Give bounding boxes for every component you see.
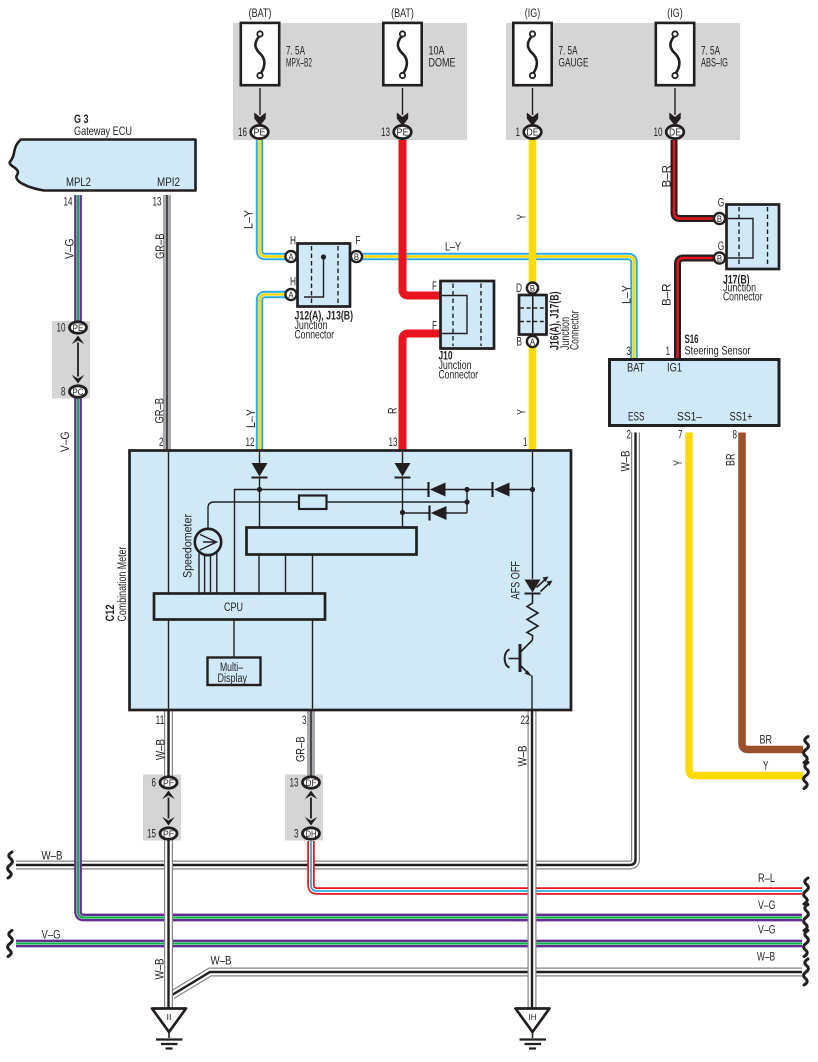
svg-text:3: 3 <box>294 829 299 841</box>
wire B-R from fuse ABS-IG pin 10 to junction connector J17 upper pin B <box>674 140 714 219</box>
svg-text:8: 8 <box>733 430 738 442</box>
svg-text:PE: PE <box>254 128 266 139</box>
svg-text:V–G: V–G <box>758 900 776 912</box>
svg-text:PF: PF <box>163 778 174 789</box>
diode D5 pointing left on row1 right <box>491 482 493 497</box>
svg-text:SS1+: SS1+ <box>730 412 753 424</box>
svg-text:MPI2: MPI2 <box>157 177 180 189</box>
wire GR-B from Gateway ECU MPI2 pin 13 to C12 pin 2 <box>163 195 171 451</box>
svg-text:Y: Y <box>763 761 769 773</box>
node DF-DH connector background <box>285 775 323 841</box>
fuse 7.5A ABS-IG with pin 10 DE <box>656 23 694 85</box>
wire L-Y from J12 pin B right and down to S16 BAT pin 3 <box>363 257 634 360</box>
svg-text:Connector: Connector <box>723 292 763 304</box>
svg-text:(BAT): (BAT) <box>391 8 414 20</box>
wire W-B bottom horizontal from right break joining ground wire <box>172 972 802 995</box>
svg-text:PE: PE <box>73 323 84 334</box>
svg-text:GR–B: GR–B <box>155 398 167 424</box>
svg-text:BR: BR <box>760 735 773 747</box>
wire break mark left V-G <box>8 931 13 957</box>
svg-text:B–R: B–R <box>662 165 674 188</box>
ECU C12 Combination Meter box <box>130 451 572 711</box>
svg-text:IH: IH <box>529 1012 537 1022</box>
wire break mark right W-B <box>804 959 809 985</box>
svg-text:3: 3 <box>627 346 632 358</box>
svg-text:7: 7 <box>678 430 683 442</box>
svg-text:F: F <box>356 236 361 248</box>
wire R from junction connector J10 lower pin F down to C12 pin 13 <box>403 334 442 451</box>
svg-text:W–B: W–B <box>211 956 232 968</box>
svg-text:22: 22 <box>521 715 530 727</box>
svg-text:B: B <box>530 284 535 294</box>
svg-text:H: H <box>290 236 296 248</box>
pin B lower of J17 <box>714 252 725 263</box>
wire Y from fuse GAUGE pin 1 through J16 to C12 pin 1 <box>529 140 537 451</box>
node Multi-Display box <box>208 658 261 686</box>
wire W-B from S16 ESS pin 2 down and left to break <box>16 433 636 866</box>
wire W-B from C12 pin 22 to ground IH <box>528 710 537 1008</box>
svg-text:B: B <box>717 214 722 224</box>
svg-text:W–B: W–B <box>757 952 775 964</box>
wire V-G lower segment from PC pin 8 down then right to break <box>78 398 802 918</box>
svg-text:L–Y: L–Y <box>246 409 258 428</box>
wire V-G from Gateway ECU MPL2 pin 14 upper segment <box>74 195 82 322</box>
svg-text:Gateway ECU: Gateway ECU <box>74 126 132 138</box>
wire stubs long rect to CPU <box>259 555 313 594</box>
wire Y from S16 SS1- pin 7 down then right to break <box>689 433 803 776</box>
wire internal C12 pin 2 to CPU <box>168 452 170 594</box>
svg-text:13: 13 <box>389 437 398 449</box>
svg-text:B: B <box>717 254 722 264</box>
svg-text:8: 8 <box>61 387 66 399</box>
node IG-fuse-block background <box>506 23 740 140</box>
svg-text:7. 5A: 7. 5A <box>559 46 578 58</box>
svg-text:DH: DH <box>306 829 317 840</box>
svg-text:2: 2 <box>159 437 164 449</box>
wire B-R from J17 lower pin B down to S16 IG1 pin 1 <box>678 258 715 360</box>
connector pair PF pin 6 to PF pin 15 <box>160 777 177 788</box>
svg-text:V–G: V–G <box>42 930 61 942</box>
svg-text:Y: Y <box>673 460 685 466</box>
IC CPU box in C12 <box>154 594 325 620</box>
node junction dot in J12 <box>321 254 326 259</box>
svg-text:(IG): (IG) <box>667 8 683 20</box>
svg-text:7. 5A: 7. 5A <box>701 46 720 58</box>
svg-text:7. 5A: 7. 5A <box>286 46 305 58</box>
svg-text:A: A <box>288 252 293 262</box>
svg-text:16: 16 <box>238 127 247 139</box>
svg-text:Steering Sensor: Steering Sensor <box>685 346 751 358</box>
ground II <box>152 1009 186 1033</box>
resistor in AFS OFF branch <box>527 594 538 640</box>
svg-text:PE: PE <box>397 128 409 139</box>
svg-text:CPU: CPU <box>224 602 243 614</box>
svg-text:14: 14 <box>64 197 73 209</box>
svg-text:G: G <box>718 241 725 253</box>
wire W-B from connector PF pin 15 to ground II <box>164 838 173 1008</box>
svg-text:1: 1 <box>523 437 528 449</box>
svg-text:L–Y: L–Y <box>244 210 256 229</box>
svg-text:W–B: W–B <box>518 745 530 766</box>
svg-text:DOME: DOME <box>429 58 456 70</box>
svg-text:1: 1 <box>516 127 521 139</box>
svg-text:13: 13 <box>153 197 162 209</box>
svg-text:L–Y: L–Y <box>622 285 634 304</box>
svg-text:C12: C12 <box>105 605 117 622</box>
svg-text:1: 1 <box>666 346 671 358</box>
wire V-G horizontal from left break to right break <box>16 940 802 948</box>
wire break mark right R-L <box>804 878 809 904</box>
resistor R1 in C12 <box>299 496 327 510</box>
svg-text:MPX–B2: MPX–B2 <box>286 58 312 70</box>
junction connector J16(A),J17(B) box <box>519 295 547 335</box>
wire GR-B from C12 pin 3 to connector DF pin 13 <box>307 710 315 778</box>
svg-text:13: 13 <box>290 778 299 790</box>
svg-text:2: 2 <box>627 430 632 442</box>
svg-text:IG1: IG1 <box>667 363 682 375</box>
pin A upper of J12 <box>285 251 296 262</box>
svg-text:6: 6 <box>152 778 157 790</box>
wire row1 horizontal with diodes <box>260 489 429 491</box>
svg-text:II: II <box>167 1012 172 1022</box>
svg-text:(BAT): (BAT) <box>249 8 272 20</box>
svg-text:W–B: W–B <box>42 851 63 863</box>
svg-text:15: 15 <box>147 829 156 841</box>
wire CPU down to C12 pin 3 <box>312 620 314 709</box>
svg-text:Connector: Connector <box>439 370 479 382</box>
svg-text:MPL2: MPL2 <box>66 177 91 189</box>
node junction dot on pin13 line row3 <box>400 510 405 515</box>
junction connector J12(A),J13(B) box <box>298 244 351 307</box>
svg-text:(IG): (IG) <box>525 8 541 20</box>
svg-text:B–R: B–R <box>662 284 674 307</box>
wire CPU to Multi-Display <box>233 620 235 658</box>
wire internal CPU to C12 pin 11 <box>168 620 170 709</box>
transistor Q1 in C12 <box>521 640 533 652</box>
svg-text:GAUGE: GAUGE <box>559 58 589 70</box>
ECU S16 Steering Sensor box <box>610 360 780 426</box>
svg-text:V–G: V–G <box>758 925 776 937</box>
svg-text:Display: Display <box>218 673 248 685</box>
wire L-Y from fuse MPX-B2 pin 16 to junction connector J12 pin A <box>260 140 287 257</box>
node display unit long rectangle <box>247 528 417 555</box>
svg-text:GR–B: GR–B <box>155 233 167 259</box>
node junction dot under D1 <box>257 487 262 492</box>
pin B upper of J17 <box>714 213 725 224</box>
svg-text:BR: BR <box>726 454 738 467</box>
pin B upper of J16 <box>527 282 538 293</box>
svg-text:B: B <box>354 252 359 262</box>
svg-text:PC: PC <box>73 387 84 398</box>
svg-text:Connector: Connector <box>295 330 335 342</box>
pin A lower of J16 <box>527 336 538 347</box>
svg-text:A: A <box>288 290 293 300</box>
wire L-Y from junction connector J12 lower pin A down to C12 pin 12 <box>260 295 287 451</box>
svg-text:F: F <box>432 321 437 333</box>
diode D4 pointing left on row3 <box>428 506 430 521</box>
svg-text:A: A <box>530 337 535 347</box>
svg-text:W–B: W–B <box>621 450 633 471</box>
connector pair PE pin 10 to PC pin 8 <box>70 322 87 333</box>
svg-text:Connector: Connector <box>570 310 582 350</box>
wire row2 horizontal to resistor <box>208 502 299 529</box>
ground IH <box>516 1009 550 1033</box>
svg-text:GR–B: GR–B <box>296 736 308 762</box>
wire row3 horizontal <box>403 512 430 514</box>
svg-text:13: 13 <box>381 127 390 139</box>
node junction dot row1 on pin1 line <box>530 487 535 492</box>
svg-text:F: F <box>432 281 437 293</box>
svg-text:G: G <box>718 198 725 210</box>
LED AFS OFF indicator <box>525 580 541 593</box>
wire R-L from DH pin 3 down then right to break <box>311 841 802 891</box>
svg-text:12: 12 <box>246 437 255 449</box>
wire internal pin1 vertical down to LED <box>532 452 534 579</box>
pin B of J12 <box>351 251 362 262</box>
svg-text:AFS OFF: AFS OFF <box>511 561 523 600</box>
svg-text:L–Y: L–Y <box>445 242 461 254</box>
pin A lower of J12 <box>285 289 296 300</box>
svg-text:10A: 10A <box>429 46 445 58</box>
svg-text:ABS–IG: ABS–IG <box>701 58 728 70</box>
wire break mark right Y <box>804 763 809 789</box>
wire break mark right BR <box>804 737 809 763</box>
svg-text:W–B: W–B <box>155 958 167 979</box>
diode D2 below C12 pin 13 <box>402 452 404 463</box>
wire R from fuse DOME pin 13 to junction connector J10 upper pin F <box>403 140 442 296</box>
wire speedometer legs to CPU <box>199 553 217 594</box>
svg-text:Speedometer: Speedometer <box>183 514 195 578</box>
svg-text:Y: Y <box>517 214 529 220</box>
wire break mark right V-G lower <box>804 931 809 957</box>
svg-text:W–B: W–B <box>156 739 168 760</box>
wire W-B from C12 pin 11 to connector PF <box>164 710 173 778</box>
svg-text:ESS: ESS <box>628 412 645 424</box>
svg-text:Y: Y <box>517 409 529 415</box>
node junction dot row1 x467 <box>464 487 469 492</box>
node PE-PC connector background <box>52 321 90 399</box>
wire BR from S16 SS1+ pin 8 down then right to break <box>742 433 803 750</box>
wire break mark right V-G upper <box>804 905 809 931</box>
svg-text:PF: PF <box>163 829 174 840</box>
junction connector J10 box <box>441 281 495 349</box>
meter Speedometer gauge <box>195 529 221 555</box>
fuse 7.5A MPX-B2 with pin 16 PE <box>241 23 279 85</box>
svg-text:S16: S16 <box>685 334 699 346</box>
fuse 7.5A GAUGE with pin 1 DE <box>513 23 551 85</box>
svg-text:3: 3 <box>302 715 307 727</box>
svg-text:V–G: V–G <box>65 238 77 259</box>
svg-text:B: B <box>517 337 523 349</box>
diode D1 below C12 pin 12 <box>259 452 261 463</box>
svg-text:11: 11 <box>156 715 165 727</box>
svg-text:V–G: V–G <box>60 431 72 452</box>
node PF-PF connector background <box>143 775 181 841</box>
svg-text:DF: DF <box>306 778 317 789</box>
svg-text:SS1–: SS1– <box>677 412 703 424</box>
node BAT-fuse-block background <box>233 23 467 140</box>
diode D3 pointing left on row1 <box>427 482 429 497</box>
wire row1 left branch down to CPU <box>235 490 260 594</box>
svg-text:DE: DE <box>669 128 681 139</box>
svg-text:D: D <box>516 283 522 295</box>
node junction dot row2 x467 <box>464 499 469 504</box>
connector pair DF pin 13 to DH pin 3 <box>303 777 320 788</box>
svg-text:H: H <box>290 277 296 289</box>
ECU G3 Gateway ECU box <box>10 140 196 191</box>
wire break mark left W-B <box>8 852 13 878</box>
svg-text:R: R <box>388 408 400 415</box>
svg-text:R–L: R–L <box>758 873 775 885</box>
svg-text:G 3: G 3 <box>74 114 89 126</box>
junction connector J17(B) box <box>727 205 780 270</box>
svg-text:10: 10 <box>654 127 663 139</box>
wire vertical connecting rows at x467 <box>466 490 468 514</box>
fuse 10A DOME with pin 13 PE <box>383 23 421 85</box>
svg-text:10: 10 <box>57 323 66 335</box>
svg-text:Combination Meter: Combination Meter <box>117 546 129 621</box>
svg-text:BAT: BAT <box>627 363 645 375</box>
svg-text:DE: DE <box>527 128 539 139</box>
